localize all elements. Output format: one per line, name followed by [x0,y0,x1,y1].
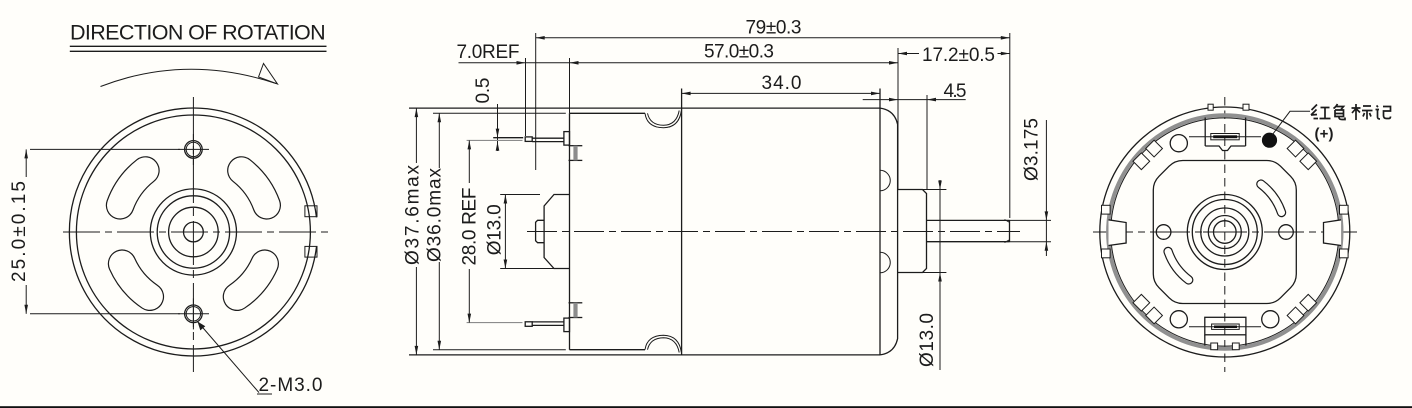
dim 34.0 [682,73,880,108]
front bearing boss [898,190,927,273]
dim 79±0.3 [536,18,1010,218]
svg-text:Ø13.0: Ø13.0 [484,204,505,255]
center boss circle r36 [157,196,229,268]
rear vent slot bottom-left [1168,252,1189,280]
rim tab bottom-right [305,246,317,257]
diagonal clip tab pair 4:30 [1287,294,1316,323]
diagonal clip tab pair 7:30 [1133,294,1162,323]
svg-text:(+): (+) [1315,126,1334,143]
end cap body [570,113,646,349]
svg-text:Ø13.0: Ø13.0 [917,313,938,367]
svg-text:17.2±0.5: 17.2±0.5 [922,45,995,66]
vertical centerline rear (dashed) [1224,97,1226,372]
rim step tabs 12 o'clock [1208,104,1213,110]
crimp notch bottom at junction [645,335,681,352]
svg-text:28.0 REF: 28.0 REF [460,188,481,266]
crimp notch top at junction [645,111,681,128]
Ø36.0 extension bottom [433,349,566,351]
bottom border line [0,406,1412,408]
red mark dot [1262,133,1277,148]
rim step tabs 3 o'clock [1340,205,1349,214]
svg-text:0.5: 0.5 [473,78,494,104]
top terminal blade [493,132,569,146]
svg-text:34.0: 34.0 [762,73,802,94]
hole lower-right [1262,311,1279,328]
svg-text:57.0±0.3: 57.0±0.3 [704,42,774,63]
rear boss ring r32.5 [1192,200,1257,265]
rear boss ring r24 [1201,208,1249,256]
top terminal inner clip [569,146,583,161]
rear center crosshair [1203,231,1247,233]
svg-text:7.0REF: 7.0REF [457,42,520,63]
vent slot SW [122,264,150,297]
centerline middle view [527,231,1020,233]
bottom terminal inner clip [569,303,583,318]
svg-text:Ø3.175: Ø3.175 [1022,118,1043,181]
center boss circle r43 [150,189,236,275]
shaft [927,220,1010,243]
dim Ø13.0 left [484,195,556,269]
vent slot NE [241,171,266,206]
label 2-M3.0 with leader [198,322,323,396]
rear bearing nub [536,220,545,242]
junction line cap/can [681,89,683,355]
center circle r25 [169,207,219,257]
motor outer circle with flat gap at right [69,108,316,356]
Ø36.0 extension top [433,112,566,114]
label 红色标记 (drawn glyphs) [1311,104,1391,120]
svg-text:4.5: 4.5 [944,81,967,102]
vertical centerline left view [192,97,194,372]
rear vent slot top-right [1261,184,1282,212]
top terminal housing [1189,118,1261,151]
rear cap inner octagon [1153,161,1296,304]
rim step tabs 6 o'clock [1211,343,1218,350]
crimp dimple top right [880,170,890,191]
rear boss ring r37.5 [1187,195,1262,270]
can right crease line [879,89,881,355]
bottom terminal housing [1189,317,1261,345]
dim 0.5 [473,78,499,152]
rear rim gray band [1108,115,1341,348]
bottom terminal blade [525,318,569,332]
shaft circle r10 [184,222,204,242]
rim tab trapezoid 9 o'clock [1109,220,1127,246]
hole upper-left [1170,135,1187,152]
dim Ø37.6max [403,108,424,355]
hole lower-left [1170,311,1187,328]
diagonal clip tab pair 10:30 [1133,140,1162,169]
rim tab top-right [305,206,317,217]
rear bearing boss on end cap [544,195,569,269]
horizontal centerline rear [1093,231,1357,233]
can top edge + Ø37.6 extension [409,107,880,109]
rear outer circle [1100,107,1350,357]
horizontal centerline left view [63,231,330,233]
dim Ø36.0max [425,113,446,349]
rim tab trapezoid 3 o'clock [1324,220,1342,246]
rim step tabs 9 o'clock [1102,205,1111,214]
dim 17.2±0.5 [898,45,1010,189]
dim Ø13.0 right [898,180,947,370]
dimension 25.0±0.15 [9,149,180,313]
title DIRECTION OF ROTATION [70,21,327,52]
mounting hole top M3 [178,134,209,165]
svg-text:79±0.3: 79±0.3 [746,18,802,39]
rear boss ring r16.5 [1208,216,1241,249]
vent slot SE [237,264,265,297]
crimp dimple bottom right [880,252,890,272]
can bottom edge + extension [409,354,880,356]
mounting hole bottom M3 [178,298,209,329]
dim 57.0±0.3 and 7.0REF shared line [457,42,899,137]
rear shaft hole [1214,221,1237,244]
side hole left [1156,225,1171,240]
dim 28.0 REF [460,140,523,322]
rotation direction arc arrow [101,64,278,87]
rear rim inner black circle [1111,118,1339,346]
diagonal clip tab pair 1:30 [1287,140,1316,169]
red mark leader line [1273,111,1311,134]
can right face with rounded corners [880,108,898,355]
svg-text:Ø36.0max: Ø36.0max [425,168,446,263]
vent slot NW [120,171,145,206]
dim 4.5 [863,81,967,190]
svg-text:25.0±0.15: 25.0±0.15 [9,181,30,282]
svg-text:2-M3.0: 2-M3.0 [259,375,323,396]
side hole right [1279,225,1294,240]
svg-text:DIRECTION OF ROTATION: DIRECTION OF ROTATION [70,21,326,45]
dim Ø3.175 [1010,118,1052,256]
rim inner circle [76,115,310,349]
